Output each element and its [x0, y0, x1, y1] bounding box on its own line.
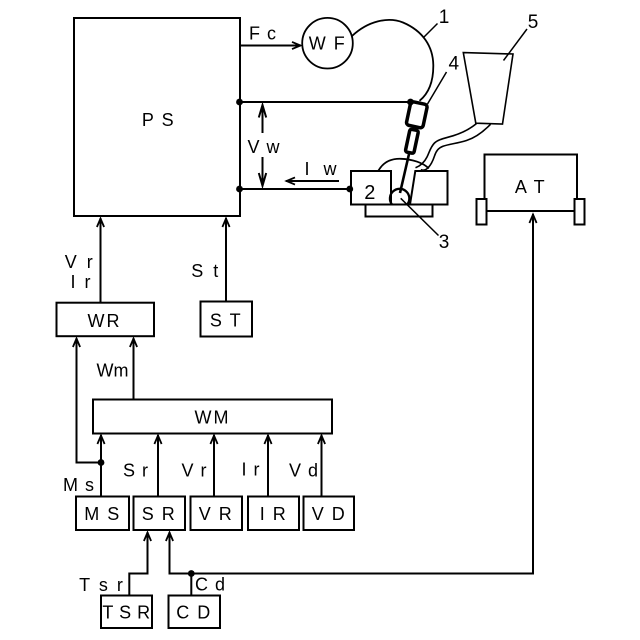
svg-text:F c: F c [249, 24, 277, 44]
svg-text:V r: V r [65, 252, 96, 272]
svg-text:WM: WM [195, 408, 231, 428]
svg-text:C d: C d [195, 575, 226, 595]
svg-text:4: 4 [449, 54, 460, 75]
svg-text:V r: V r [181, 461, 207, 481]
svg-text:3: 3 [439, 232, 450, 253]
svg-text:W F: W F [309, 34, 347, 54]
svg-text:V w: V w [247, 137, 280, 157]
svg-text:M S: M S [84, 504, 121, 524]
svg-text:I R: I R [260, 504, 288, 524]
svg-text:S r: S r [123, 461, 149, 481]
svg-text:P S: P S [142, 110, 175, 130]
svg-text:S T: S T [210, 311, 242, 331]
svg-text:WR: WR [88, 311, 122, 331]
svg-text:T S R: T S R [102, 603, 150, 623]
svg-text:1: 1 [439, 7, 450, 28]
svg-text:I w: I w [305, 159, 342, 179]
svg-text:I r: I r [242, 460, 261, 480]
svg-text:A T: A T [515, 177, 546, 197]
svg-text:S R: S R [142, 504, 177, 524]
svg-text:V R: V R [199, 504, 234, 524]
svg-text:5: 5 [528, 12, 539, 33]
svg-text:C D: C D [176, 603, 212, 623]
svg-text:S t: S t [191, 261, 221, 281]
svg-text:Wm: Wm [97, 361, 129, 381]
svg-text:M s: M s [63, 475, 95, 495]
svg-text:V d: V d [289, 461, 319, 481]
svg-text:V D: V D [312, 504, 347, 524]
svg-text:2: 2 [364, 182, 377, 204]
svg-text:T s r: T s r [79, 575, 125, 595]
svg-text:I r: I r [71, 272, 93, 292]
